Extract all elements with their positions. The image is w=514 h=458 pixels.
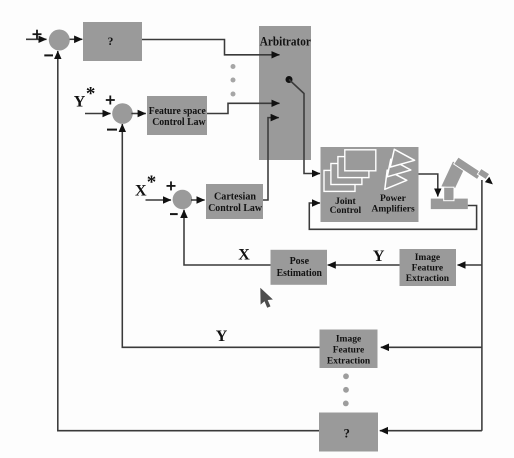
svg-text:Feature: Feature bbox=[333, 346, 364, 356]
wire: Y feedback loop from Image Feature Extraction 2 to summer S2 bbox=[122, 124, 319, 347]
wire: arrow into Image Feature Extraction 2 bbox=[381, 346, 482, 348]
plus sign at S2 input bbox=[106, 96, 115, 105]
svg-text:Cartesian: Cartesian bbox=[214, 191, 256, 202]
wire from Cartesian block into Arbitrator bbox=[263, 118, 279, 200]
svg-text:X: X bbox=[238, 247, 250, 264]
summer S2 bbox=[112, 103, 133, 124]
svg-text:Arbitrator: Arbitrator bbox=[260, 34, 311, 48]
wire from Feature space block to Arbitrator bbox=[207, 103, 280, 113]
svg-text:Y: Y bbox=[373, 248, 385, 265]
arrow S1 to ? block bbox=[70, 38, 83, 40]
wire from Power Amplifiers to robot base bbox=[419, 174, 438, 197]
svg-text:*: * bbox=[147, 172, 157, 193]
wire: X feedback from Pose Estimation to summer S3 bbox=[184, 210, 271, 265]
label Y* bbox=[74, 83, 96, 110]
summer S2 input arrow bbox=[85, 113, 111, 115]
stacked rectangles icon (joint control) bbox=[324, 150, 376, 192]
svg-text:Image: Image bbox=[415, 253, 440, 263]
svg-text:*: * bbox=[86, 83, 96, 104]
robot wrist bbox=[477, 168, 489, 179]
robot column bbox=[444, 187, 454, 201]
arrow S2 to Feature space block bbox=[131, 113, 145, 115]
svg-text:Control Law: Control Law bbox=[208, 203, 262, 214]
switch contact dot in Arbitrator bbox=[286, 76, 293, 83]
block ? (bottom) bbox=[319, 413, 378, 452]
summer S3 input arrow bbox=[146, 199, 172, 201]
wire IFE1 to Pose Estimation bbox=[328, 264, 400, 266]
label Power Amplifiers bbox=[371, 194, 415, 214]
ellipsis dots between controllers bbox=[231, 64, 236, 97]
arrow S3 to Cartesian block bbox=[191, 199, 205, 201]
svg-text:Y: Y bbox=[74, 94, 86, 111]
end effector arrow bbox=[485, 177, 493, 185]
svg-text:Image: Image bbox=[336, 335, 361, 345]
svg-text:Feature: Feature bbox=[412, 264, 443, 274]
svg-text:Control: Control bbox=[330, 206, 362, 216]
summer S1 input arrow bbox=[26, 38, 47, 40]
wire from ? block to Arbitrator bbox=[142, 40, 280, 55]
wire: joint feedback from robot base to Joint Control bbox=[309, 203, 476, 229]
wire: bottom feedback loop from ? block to summer S1 bbox=[58, 51, 319, 431]
wire: camera feedback down the right side bbox=[481, 180, 483, 431]
label X* bbox=[135, 172, 156, 199]
summer S1 bbox=[49, 30, 70, 51]
svg-text:?: ? bbox=[108, 36, 114, 48]
robot lower arm bbox=[441, 162, 466, 188]
wire: arrow into bottom ? block bbox=[380, 430, 482, 432]
block Image Feature Extraction 1 bbox=[400, 249, 457, 286]
svg-text:Control Law: Control Law bbox=[152, 117, 206, 128]
svg-text:Amplifiers: Amplifiers bbox=[371, 204, 415, 214]
svg-text:Power: Power bbox=[380, 194, 407, 204]
summer S3 bbox=[173, 190, 193, 210]
plus sign at S1 input bbox=[33, 30, 42, 39]
block Cartesian Control Law bbox=[206, 184, 263, 219]
mouse cursor bbox=[260, 288, 273, 308]
block Joint Control / Power Amplifiers bbox=[321, 147, 419, 222]
svg-text:?: ? bbox=[344, 426, 350, 440]
plus sign at S3 input bbox=[167, 181, 176, 190]
robot base bbox=[431, 199, 468, 210]
svg-text:Pose: Pose bbox=[290, 256, 310, 267]
block Arbitrator bbox=[259, 26, 311, 160]
svg-text:X: X bbox=[135, 182, 147, 199]
ellipsis dots below IFE2 bbox=[343, 373, 349, 406]
switch wire from dot to Joint Control block bbox=[289, 80, 320, 174]
label Joint Control bbox=[330, 197, 362, 216]
svg-text:Feature space: Feature space bbox=[149, 106, 206, 117]
minus sign at S2 lower input bbox=[107, 129, 117, 131]
minus sign at S3 lower input bbox=[170, 213, 178, 215]
stacked triangles icon (power amplifiers) bbox=[385, 149, 415, 189]
wire: arrow into Image Feature Extraction 1 bbox=[458, 264, 482, 266]
svg-text:Y: Y bbox=[216, 328, 228, 345]
minus sign at S1 lower input bbox=[44, 54, 53, 56]
svg-text:Estimation: Estimation bbox=[277, 268, 323, 279]
block Image Feature Extraction 2 bbox=[320, 330, 378, 369]
robot upper arm bbox=[454, 157, 482, 180]
svg-text:Extraction: Extraction bbox=[406, 274, 450, 284]
svg-text:Extraction: Extraction bbox=[327, 357, 371, 367]
block Feature space Control Law bbox=[147, 96, 207, 135]
block ? (top) bbox=[83, 22, 142, 61]
block Pose Estimation bbox=[271, 250, 328, 285]
